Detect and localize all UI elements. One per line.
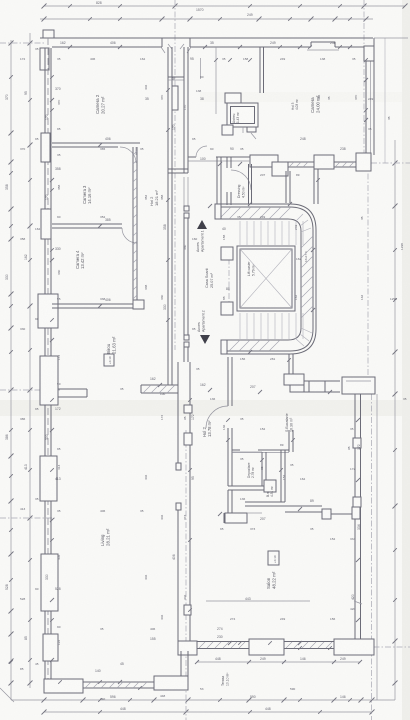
bottom dimension line 2 <box>44 711 372 713</box>
top-left pilaster <box>43 30 54 38</box>
lift shaft diagonal 1 <box>240 249 292 308</box>
central wall west line <box>177 362 179 470</box>
bath south connector line <box>331 513 352 515</box>
bottom-left corner pier <box>44 679 83 693</box>
central wall notch 1 <box>184 405 192 413</box>
right wall vent block <box>364 46 374 61</box>
stub wall y389 right <box>141 384 178 386</box>
left dimension line 1 <box>10 40 12 700</box>
axis line central-lower vertical <box>185 430 187 720</box>
right dim line 2 <box>384 38 386 163</box>
stair hall wall hatch right <box>301 236 313 248</box>
axis line right boundary solid <box>376 394 378 700</box>
top dimension line 1 <box>44 5 405 7</box>
passage door swing <box>231 170 251 190</box>
lobby partition <box>200 58 202 79</box>
shower square <box>264 480 276 492</box>
stair treads lower <box>239 313 241 339</box>
entrance arrow apartment 2 <box>200 335 210 344</box>
hol2 south stub <box>223 513 225 523</box>
wall x135 vertical <box>132 147 134 306</box>
central wall foot <box>178 641 197 655</box>
central wall east line <box>189 362 191 641</box>
kitchen-bath divider <box>288 430 290 452</box>
axis line right vertical <box>367 162 369 394</box>
bm east wall <box>280 450 282 502</box>
stair treads upper <box>239 221 241 245</box>
wall x135 hatch <box>133 151 137 155</box>
salon south dim line <box>197 661 360 663</box>
central wall jog <box>184 605 191 615</box>
corridor east wall low <box>183 347 185 362</box>
bottom-right wall east seg <box>284 641 334 643</box>
top wall inner line mid <box>190 46 311 48</box>
depozitare walls <box>227 450 229 486</box>
left wall window W5 <box>43 634 58 661</box>
band window block A <box>250 155 278 167</box>
living east wall lower <box>180 651 182 676</box>
band corner block <box>356 153 371 171</box>
antreu room walls <box>227 103 258 127</box>
central wall notch 2 <box>184 433 192 445</box>
corridor bottom threshold <box>168 168 188 170</box>
passage wall east <box>226 157 228 168</box>
lift shaft inner <box>240 249 292 308</box>
stair hall left jamb bottom <box>221 340 227 354</box>
axis line left horizontal y43 <box>0 42 44 44</box>
top wall window recess <box>310 42 312 47</box>
band west wall segment <box>188 156 196 158</box>
corridor duct closet <box>172 86 178 110</box>
bottom-right wall west seg <box>197 641 249 643</box>
bottom-left window <box>154 676 188 690</box>
bottom-right hatch 1 <box>199 642 205 648</box>
bottom dimension line 1 <box>11 699 395 701</box>
top wall dim extension <box>374 37 408 39</box>
right wall reveal joint 1 <box>353 438 361 448</box>
partition x216 <box>215 47 217 114</box>
axis line right horizontal y163 <box>371 162 410 164</box>
stair hall outer wall line 1 <box>215 204 316 354</box>
bath south wall <box>285 505 322 507</box>
right wall lower inner <box>354 394 356 639</box>
left wall window W3 <box>40 456 57 501</box>
stair hall left jamb top <box>215 204 221 219</box>
left dimension line 2 <box>29 33 31 688</box>
band wall segment 2 <box>334 161 356 163</box>
stair hall outer wall line 2 <box>215 207 313 351</box>
bottom-left wall hatch <box>85 682 91 688</box>
central wall door jambs <box>176 463 181 470</box>
door swing y145 <box>120 147 136 163</box>
corridor east door jambs <box>184 206 189 211</box>
wall y226 <box>52 223 122 225</box>
scan fold bottom-left corner <box>0 688 14 702</box>
salon dim line <box>206 600 310 602</box>
right dim ticks <box>393 161 398 166</box>
bottom-right hatch 2 <box>286 642 292 648</box>
top wall inner line east <box>335 46 366 48</box>
top dim ticks <box>42 4 47 9</box>
axis line right horizontal y647 <box>362 646 410 648</box>
dressing west wall <box>248 164 250 204</box>
bay block mid <box>309 381 325 392</box>
stub wall y393 left <box>58 388 87 390</box>
band wall segment 1 <box>288 161 314 163</box>
scattered ticks <box>68 4 72 8</box>
stair hall inner wall line <box>215 219 301 340</box>
dressing-band connector wall <box>313 169 315 204</box>
kitchen door swing <box>206 406 228 428</box>
corridor west wall <box>167 47 169 385</box>
right wall upper outer <box>373 38 375 155</box>
bath south jamb <box>352 507 360 519</box>
axis line right vertical upper <box>363 0 365 162</box>
wall y306 <box>52 303 144 305</box>
stair column upper <box>221 247 233 260</box>
axis line central vertical <box>174 0 176 350</box>
corridor top threshold <box>168 76 184 78</box>
antreu door marks <box>242 127 244 133</box>
door swing y226 <box>122 228 137 243</box>
scan crease band mid <box>0 400 410 416</box>
wall y145 <box>52 142 140 144</box>
bottom dim ticks <box>42 698 47 703</box>
antreu label box <box>247 127 256 132</box>
band block A foot <box>272 162 288 176</box>
dressing east wall <box>285 171 287 203</box>
left wall inner line <box>50 48 52 679</box>
top wall outer line <box>40 37 373 39</box>
bay block west <box>284 374 304 385</box>
top-left corner pier <box>40 48 49 70</box>
stair fan treads bottom-right <box>296 339 304 346</box>
stair fan treads top-right <box>296 214 303 221</box>
bottom-right window <box>249 639 284 655</box>
band wall hatch 2 <box>335 162 340 167</box>
left wall pier 1 <box>38 294 58 328</box>
bm south wall <box>245 501 285 503</box>
scan crease band upper right <box>200 92 410 102</box>
antreu door block <box>222 125 233 135</box>
left wall pier 2 <box>40 356 58 405</box>
right dimension line <box>394 140 396 700</box>
bay window east <box>342 377 375 394</box>
birou level mark <box>104 354 114 366</box>
axis line left horizontal y390 <box>0 389 60 391</box>
corridor east wall upper2 <box>183 177 185 206</box>
entrance arrow apartment 1 <box>197 220 207 229</box>
salon level mark <box>268 551 279 565</box>
interior wall ticks <box>68 45 72 49</box>
scan shade right edge <box>402 0 410 720</box>
stub hatch <box>143 385 151 393</box>
right wall reveal tick <box>354 601 362 604</box>
left wall window W1 <box>41 133 50 162</box>
partition wall x260-263 <box>259 47 261 93</box>
band window block B <box>314 155 334 169</box>
corridor east wall mid <box>183 218 185 335</box>
bay wall lines <box>304 380 340 382</box>
corridor east door jambs 2 <box>184 335 189 340</box>
left wall chain axis <box>47 38 49 680</box>
band west door swing <box>196 146 207 157</box>
bath south connector square <box>322 509 331 519</box>
main entrance door jambs <box>161 38 163 47</box>
passage wall west <box>216 157 218 205</box>
left wall window W2 <box>41 209 51 239</box>
bottom-right corner block <box>334 639 374 655</box>
bottom-left wall <box>83 681 154 683</box>
lift shaft outer <box>237 246 295 311</box>
axis line left horizontal y518 <box>0 517 55 519</box>
left wall outer line <box>44 48 46 679</box>
lift shaft diagonal 2 <box>240 249 292 308</box>
stair column lower <box>221 302 233 315</box>
top wall inner line west <box>52 46 162 48</box>
kitchen west wall <box>227 357 229 406</box>
band wall hatch 1 <box>289 162 294 167</box>
loop-band connector wall <box>288 354 290 374</box>
hol2 south window <box>225 513 247 523</box>
right wall upper inner <box>365 47 367 153</box>
right wall lower outer <box>360 394 362 639</box>
top dimension line 2 <box>40 18 373 20</box>
left dim ticks <box>9 41 14 46</box>
antreu closet <box>225 93 241 103</box>
stair hall wall hatch bottom <box>229 340 240 351</box>
right wall upper mid <box>370 47 372 153</box>
bath top wall <box>232 449 240 451</box>
depozitare west wall lower <box>227 490 229 513</box>
wall y306 end cap <box>133 300 144 309</box>
kitchen west wall lower <box>227 428 229 450</box>
axis stair walk line <box>228 247 230 315</box>
axis line right dashed lower <box>371 394 373 720</box>
right wall reveal joint 2 <box>353 497 361 507</box>
corridor east wall upper <box>183 47 185 173</box>
left wall window W4 <box>41 554 58 611</box>
stair hall wall hatch top <box>219 207 231 219</box>
